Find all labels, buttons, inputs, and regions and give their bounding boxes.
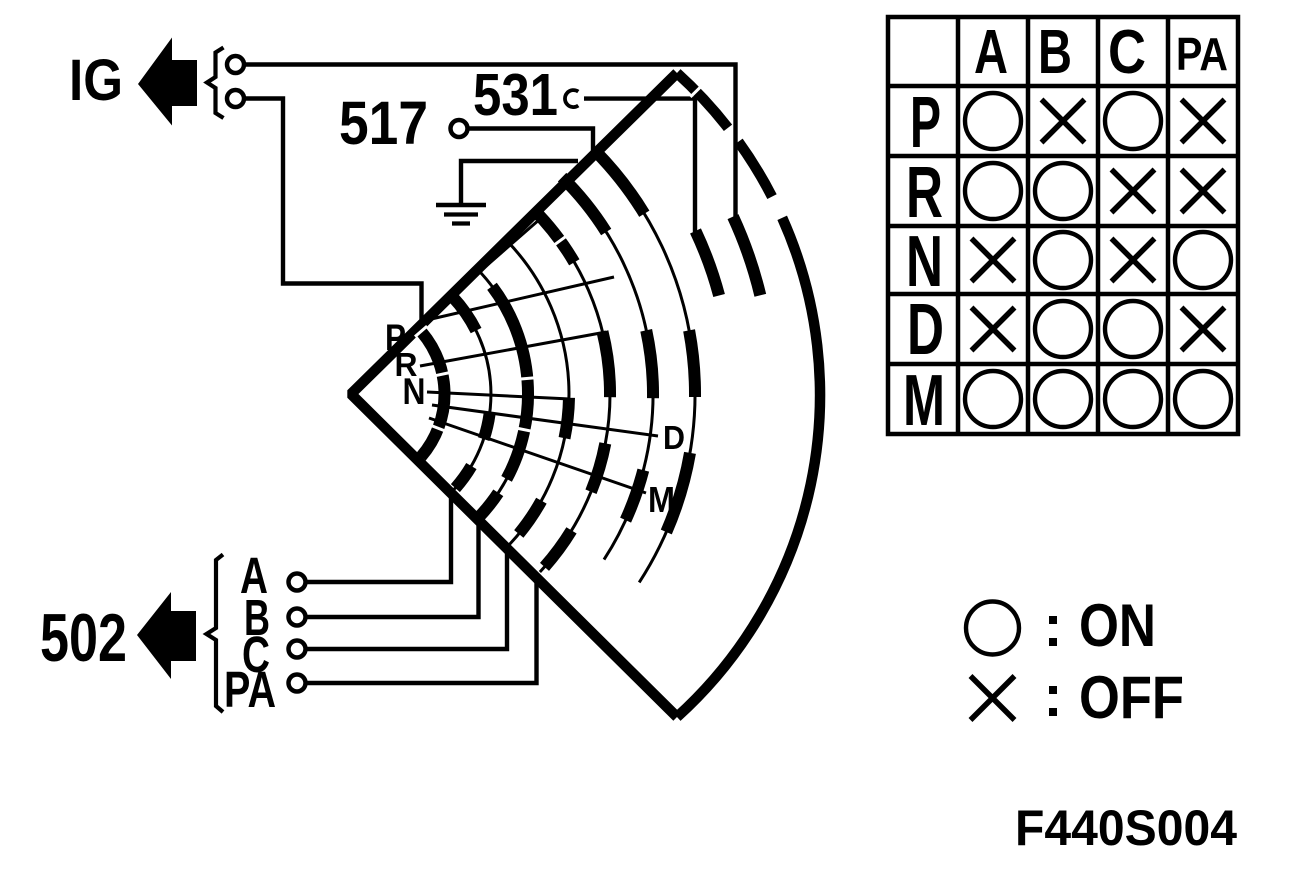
table mark OFF row D col 0 [972,308,1015,351]
table mark ON row P col 0 [965,93,1021,149]
switch outer arc main [677,218,820,717]
wire PA [308,579,537,683]
track 7 contact segments [596,152,645,214]
legend ON symbol [966,602,1019,655]
contact track 9 segment [733,217,760,296]
table mark ON row D col 2 [1105,301,1161,357]
connector arrow IG [138,38,197,126]
svg-text:ON: ON [1079,592,1156,659]
table mark ON row M col 1 [1035,371,1091,427]
svg-text:F440S004: F440S004 [1015,800,1237,856]
svg-text:P: P [910,83,941,163]
terminal B [289,609,306,626]
wire A [308,492,452,582]
wire 531 to contact track [584,99,695,232]
notch on outer arc [690,86,701,97]
leader N [427,392,570,399]
table mark OFF row R col 2 [1112,170,1155,213]
table mark ON row M col 3 [1175,371,1231,427]
contact track 2 base [450,295,491,493]
table mark OFF row D col 3 [1182,308,1225,351]
leader from feed [427,277,614,320]
table mark ON row R col 1 [1035,163,1091,219]
terminal PA [289,675,306,692]
track 3 contact segments [492,286,528,479]
ground [436,205,486,224]
switch rotor edges [351,73,677,717]
notches track 1 [415,326,450,431]
track 6 contact segments [562,177,606,232]
leader R [420,332,606,366]
table mark ON row M col 0 [965,371,1021,427]
legend OFF symbol [971,676,1015,720]
svg-text:517: 517 [339,89,428,157]
terminal IG pin 2 [227,90,244,107]
terminal 531 (open) [565,90,578,107]
track 5 contact segments [534,210,574,262]
table mark ON row P col 2 [1105,93,1161,149]
legend colon 1 [1049,616,1057,624]
wire C [308,550,508,649]
track 2 contact segments [453,297,476,330]
ground wire [461,161,578,203]
contact state table grid [888,17,1238,434]
table mark OFF row R col 3 [1182,170,1225,213]
svg-text:A: A [974,18,1008,87]
svg-text:PA: PA [224,661,276,718]
svg-text:N: N [403,371,426,412]
brace 502 [207,555,224,713]
legend colon 2 [1049,686,1057,694]
contact track 8 segment [696,231,720,296]
svg-text:502: 502 [40,600,127,676]
leader P [406,219,540,336]
terminal A [289,574,306,591]
leader D [432,405,658,436]
svg-text:D: D [907,290,944,370]
svg-text:D: D [663,419,685,456]
terminal IG pin 1 [227,56,244,73]
wire B [308,520,479,617]
svg-text:R: R [906,153,943,233]
notch track 5 [554,236,567,245]
svg-text:B: B [1038,18,1072,87]
terminal 517 [451,120,468,137]
track 4 contact segments [565,398,570,438]
table mark ON row R col 0 [965,163,1021,219]
svg-text:M: M [648,479,675,520]
contact track 4 base [506,240,569,546]
contact track 7 base [598,154,695,583]
switch outer arc segment top [677,73,728,128]
wire 517 to switch edge [470,129,594,154]
switch outer arc dash [738,142,772,197]
svg-text:C: C [1108,18,1146,87]
table mark OFF row P col 1 [1042,100,1085,143]
svg-text:IG: IG [69,48,123,113]
svg-text:531: 531 [473,62,558,128]
table mark ON row N col 1 [1035,232,1091,288]
table mark ON row D col 1 [1035,301,1091,357]
notches track 3 [517,378,536,432]
table mark OFF row N col 2 [1112,239,1155,282]
svg-text:PA: PA [1176,28,1228,80]
table mark OFF row P col 3 [1182,100,1225,143]
connector arrow 502 [137,592,196,679]
terminal C [289,641,306,658]
table mark OFF row N col 0 [972,239,1015,282]
table mark ON row M col 2 [1105,371,1161,427]
brace IG [207,48,224,119]
svg-text:OFF: OFF [1079,664,1184,731]
contact track 1 (inner) [416,326,445,457]
contact track 6 base [566,181,653,560]
contact track 3 base [477,269,528,519]
svg-text:M: M [903,361,945,441]
wire IG pin2 to rotor apex edge [246,99,422,322]
leader M [429,418,646,493]
table mark ON row N col 3 [1175,232,1231,288]
contact track 5 base [535,211,610,572]
wire IG pin1 to outer contact track [246,65,736,219]
